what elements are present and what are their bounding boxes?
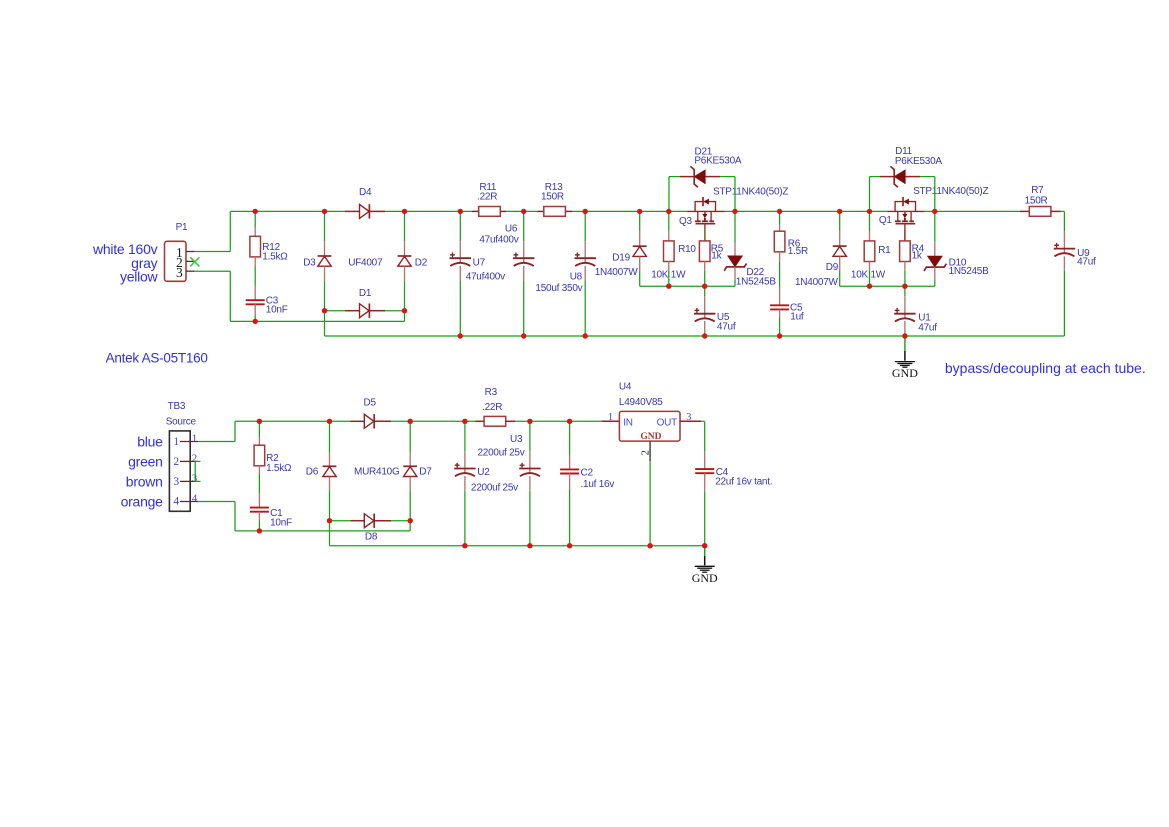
svg-text:10nF: 10nF: [270, 517, 292, 528]
wire: [329, 490, 331, 520]
wire: [459, 211, 461, 241]
wire: [324, 211, 326, 241]
svg-text:D2: D2: [415, 257, 428, 268]
wire: [329, 521, 331, 546]
wire: [391, 420, 475, 422]
svg-text:TB3: TB3: [168, 401, 186, 412]
wire: [235, 530, 410, 532]
svg-text:Q1: Q1: [879, 215, 893, 226]
svg-text:GND: GND: [892, 366, 918, 380]
svg-text:D5: D5: [364, 397, 377, 408]
wire: [235, 420, 350, 422]
svg-text:GND: GND: [692, 571, 718, 585]
P1 pin 2: [186, 260, 195, 262]
wire: [258, 421, 260, 437]
capacitor C2: [560, 468, 579, 470]
svg-text:blue: blue: [137, 434, 163, 450]
TVS diode D21: [695, 170, 706, 183]
svg-text:47uf: 47uf: [1077, 256, 1096, 267]
junction: [867, 284, 872, 289]
capacitor U5: [704, 314, 706, 319]
svg-text:U6: U6: [505, 224, 518, 235]
svg-text:orange: orange: [121, 494, 164, 510]
svg-text:D3: D3: [303, 257, 316, 268]
wire: [385, 210, 472, 212]
svg-text:2: 2: [173, 456, 179, 468]
resistor R4: [900, 241, 911, 262]
svg-text:P1: P1: [176, 222, 188, 233]
capacitor C4 column: [704, 452, 706, 469]
wire: [325, 310, 346, 312]
junction: [666, 284, 671, 289]
transistor Q1: [887, 210, 925, 212]
wire: [934, 280, 936, 286]
diode D19: [633, 245, 647, 247]
wire: [869, 177, 871, 212]
wire: [639, 211, 641, 231]
svg-text:UF4007: UF4007: [348, 257, 383, 268]
junction: [257, 528, 262, 533]
svg-text:2200uf 25v: 2200uf 25v: [471, 483, 518, 494]
wire: [324, 281, 326, 336]
wire: [198, 441, 235, 443]
wire: [572, 210, 687, 212]
svg-text:2: 2: [192, 452, 198, 464]
svg-text:C2: C2: [581, 468, 594, 479]
wire: [904, 286, 906, 296]
diode D4: [360, 204, 370, 218]
wire: [640, 285, 735, 287]
junction: [402, 308, 407, 313]
svg-text:green: green: [128, 454, 163, 470]
wire: [195, 251, 231, 253]
junction: [702, 333, 707, 338]
junction: [462, 543, 467, 548]
svg-text:3: 3: [686, 412, 691, 423]
wire: [701, 420, 705, 422]
resistor R5: [699, 241, 710, 262]
wire: [1063, 270, 1065, 336]
regulator U4: [619, 411, 680, 441]
svg-text:R7: R7: [1031, 185, 1044, 196]
wire: [734, 280, 736, 286]
diode D1: [360, 304, 370, 318]
svg-text:1k: 1k: [912, 251, 923, 262]
connector P1: [165, 241, 187, 281]
junction: [527, 543, 532, 548]
diode D2: [398, 255, 412, 257]
svg-text:D7: D7: [419, 466, 432, 477]
resistor R6: [774, 231, 785, 252]
wire: [258, 474, 260, 494]
wire: [584, 281, 586, 336]
svg-text:1.5kΩ: 1.5kΩ: [266, 463, 292, 474]
TVS diode D11: [895, 170, 906, 183]
junction: [527, 419, 532, 424]
resistor R7: [1020, 210, 1030, 212]
wire: [779, 318, 781, 337]
junction: [322, 209, 327, 214]
junction: [567, 543, 572, 548]
wire: [523, 211, 525, 241]
svg-text:47uf: 47uf: [918, 322, 937, 333]
wire: [839, 211, 841, 231]
junction: [837, 209, 842, 214]
svg-text:1N4007W: 1N4007W: [795, 277, 839, 288]
capacitor U3: [529, 469, 531, 474]
svg-text:P6KE530A: P6KE530A: [694, 156, 742, 167]
wire: [704, 271, 706, 287]
wire: [330, 520, 351, 522]
svg-text:1.5R: 1.5R: [788, 246, 808, 257]
diode D8: [364, 514, 374, 528]
svg-text:1N5245B: 1N5245B: [736, 277, 777, 288]
svg-text:47uf400v: 47uf400v: [479, 234, 518, 245]
resistor R3: [475, 420, 484, 422]
diode D8: [350, 520, 364, 522]
svg-text:Antek AS-05T160: Antek AS-05T160: [106, 350, 208, 365]
diode D4 leads: [345, 210, 359, 212]
wire: [409, 521, 411, 531]
junction: [702, 543, 707, 548]
wire: [234, 421, 236, 441]
junction: [322, 308, 327, 313]
svg-text:1uf: 1uf: [790, 311, 804, 322]
junction: [732, 209, 737, 214]
svg-text:GND: GND: [640, 432, 661, 442]
svg-text:Q3: Q3: [679, 216, 693, 227]
svg-text:4: 4: [173, 496, 179, 508]
svg-text:47uf400v: 47uf400v: [466, 272, 505, 283]
svg-text:U3: U3: [510, 434, 523, 445]
junction: [458, 209, 463, 214]
resistor R11: [472, 210, 484, 212]
zener diode D22: [728, 256, 742, 267]
diode D5: [364, 414, 374, 428]
wire: [869, 271, 871, 287]
TB3 pin 2: [180, 460, 195, 462]
svg-text:.1uf 16v: .1uf 16v: [581, 479, 615, 490]
junction: [647, 543, 652, 548]
svg-text:3: 3: [173, 476, 179, 488]
junction: [408, 518, 413, 523]
wire: [404, 281, 406, 311]
wire: [904, 271, 906, 287]
no-connect X on P1 pin 2: [190, 257, 199, 266]
wire: [934, 211, 936, 241]
svg-text:D9: D9: [826, 262, 839, 273]
svg-text:1k: 1k: [711, 251, 722, 262]
svg-text:OUT: OUT: [657, 417, 678, 428]
resistor R11 box: [479, 207, 501, 217]
junction: [253, 319, 258, 324]
svg-text:10K 1W: 10K 1W: [851, 270, 886, 281]
resistor R13: [537, 210, 544, 212]
wire: [725, 210, 888, 212]
wire: [840, 285, 935, 287]
resistor R1: [864, 241, 875, 262]
wire: [229, 211, 231, 251]
svg-text:1: 1: [173, 436, 179, 448]
diode D9: [833, 245, 847, 247]
junction: [327, 518, 332, 523]
wire: [584, 211, 586, 241]
wire: [464, 421, 466, 451]
svg-text:1: 1: [192, 432, 198, 444]
svg-text:bypass/decoupling at each tube: bypass/decoupling at each tube.: [945, 360, 1146, 376]
wire: [869, 211, 871, 231]
diode D3: [318, 255, 332, 257]
junction: [666, 209, 671, 214]
junction: [583, 333, 588, 338]
wire: [734, 211, 736, 243]
svg-text:3: 3: [176, 265, 183, 280]
wire: [254, 316, 256, 322]
capacitor U1: [904, 314, 906, 319]
wire: [329, 421, 331, 453]
TB3 pin 3: [180, 480, 195, 482]
wire: [258, 521, 260, 531]
svg-text:1N5245B: 1N5245B: [949, 266, 990, 277]
wire: [734, 177, 736, 212]
connector TB3: [169, 431, 190, 511]
svg-text:10K 1W: 10K 1W: [651, 270, 686, 281]
wire: [704, 492, 706, 546]
wire: [195, 480, 201, 482]
svg-text:22uf 16v tant.: 22uf 16v tant.: [715, 477, 772, 488]
wire: [230, 210, 345, 212]
wire: [668, 211, 670, 231]
wire: [391, 520, 410, 522]
capacitor U2: [464, 469, 466, 474]
wire: [409, 490, 411, 520]
wire: [839, 271, 841, 286]
capacitor C3: [246, 299, 265, 301]
P1 pin 1: [186, 251, 195, 253]
wire: [194, 461, 196, 481]
wire: [569, 490, 571, 546]
capacitor U7: [459, 258, 461, 263]
svg-text:150R: 150R: [1025, 195, 1048, 206]
wire: [669, 176, 680, 178]
wire: [409, 421, 411, 453]
wire: [904, 333, 906, 336]
junction: [402, 209, 407, 214]
junction: [777, 209, 782, 214]
P1 pin 3: [186, 270, 195, 272]
svg-text:D8: D8: [365, 532, 378, 543]
svg-text:brown: brown: [126, 474, 163, 490]
capacitor U9: [1063, 249, 1065, 254]
svg-text:U4: U4: [619, 382, 632, 393]
wire: [195, 270, 231, 272]
wire: [325, 335, 1065, 337]
wire: [230, 320, 404, 322]
junction: [253, 209, 258, 214]
diode D6: [323, 465, 337, 467]
junction: [521, 209, 526, 214]
wire: [254, 211, 256, 227]
ground symbol GND (top): [904, 336, 906, 351]
svg-text:1.5kΩ: 1.5kΩ: [262, 252, 288, 263]
TB3 pin 4: [180, 501, 198, 503]
junction: [867, 209, 872, 214]
wire: [779, 211, 781, 224]
wire: [506, 210, 537, 212]
wire: [1061, 210, 1065, 212]
capacitor U6: [523, 258, 525, 263]
capacitor C1: [250, 507, 269, 509]
svg-text:R3: R3: [485, 387, 498, 398]
wire: [385, 310, 405, 312]
wire: [330, 545, 705, 547]
junction: [932, 209, 937, 214]
diode D7: [403, 465, 417, 467]
wire: [569, 421, 571, 455]
wire: [229, 271, 231, 321]
wire: [195, 460, 201, 462]
svg-text:4: 4: [192, 492, 198, 504]
svg-text:R1: R1: [878, 245, 891, 256]
wire: [234, 502, 236, 531]
svg-text:10nF: 10nF: [266, 305, 288, 316]
svg-text:D19: D19: [612, 252, 630, 263]
svg-text:U2: U2: [477, 467, 490, 478]
wire: [404, 311, 406, 322]
wire: [254, 266, 256, 286]
junction: [462, 419, 467, 424]
resistor R2: [254, 445, 265, 466]
svg-text:Source: Source: [166, 417, 197, 428]
capacitor U8: [584, 258, 586, 263]
wire: [704, 333, 706, 336]
junction: [408, 419, 413, 424]
wire: [920, 176, 935, 178]
wire: [515, 420, 601, 422]
svg-text:D1: D1: [359, 288, 372, 299]
svg-text:2: 2: [640, 450, 651, 455]
svg-text:R10: R10: [678, 244, 696, 255]
junction: [702, 284, 707, 289]
svg-text:47uf: 47uf: [717, 321, 736, 332]
junction: [521, 333, 526, 338]
U4 pin 1: [601, 420, 619, 422]
svg-text:yellow: yellow: [120, 269, 159, 285]
svg-text:IN: IN: [623, 417, 633, 428]
transistor Q3: [687, 210, 725, 212]
junction: [458, 333, 463, 338]
svg-text:STP11NK40(50)Z: STP11NK40(50)Z: [913, 186, 988, 197]
wire: [649, 461, 651, 546]
svg-text:D4: D4: [359, 187, 372, 198]
wire: [404, 211, 406, 241]
wire: [464, 491, 466, 546]
junction: [257, 419, 262, 424]
capacitor C4: [695, 468, 714, 470]
wire: [720, 176, 735, 178]
svg-text:2200uf 25v: 2200uf 25v: [478, 447, 525, 458]
junction: [902, 284, 907, 289]
wire: [1063, 211, 1065, 231]
wire: [529, 421, 531, 451]
U4 pin 2 (GND): [649, 441, 651, 461]
svg-text:U8: U8: [570, 271, 583, 282]
svg-text:D6: D6: [306, 466, 319, 477]
junction: [777, 333, 782, 338]
wire: [934, 177, 936, 212]
wire: [668, 177, 670, 212]
svg-text:1: 1: [608, 412, 613, 423]
zener diode D10: [928, 256, 942, 267]
wire: [529, 491, 531, 546]
svg-text:L4940V85: L4940V85: [619, 397, 663, 408]
diode D5: [350, 420, 364, 422]
resistor R3 box: [484, 416, 506, 426]
svg-text:150uf 350v: 150uf 350v: [535, 283, 582, 294]
resistor R7 box: [1029, 207, 1051, 217]
svg-text:STP11NK40(50)Z: STP11NK40(50)Z: [713, 187, 788, 198]
U4 pin 3: [680, 420, 701, 422]
wire: [925, 210, 1020, 212]
wire: [523, 281, 525, 336]
ground symbol GND (bottom): [704, 546, 706, 556]
resistor R12: [250, 236, 261, 257]
junction: [327, 419, 332, 424]
wire: [704, 421, 706, 451]
TB3 pin 1: [180, 441, 198, 443]
wire: [198, 501, 235, 503]
svg-text:.22R: .22R: [482, 402, 502, 413]
resistor R10: [664, 241, 675, 262]
capacitor C5: [770, 304, 789, 306]
svg-text:U7: U7: [473, 257, 486, 268]
resistor R13 box: [544, 207, 566, 217]
junction: [902, 333, 907, 338]
wire: [639, 271, 641, 286]
svg-text:1N4007W: 1N4007W: [595, 267, 639, 278]
wire: [779, 262, 781, 287]
junction: [567, 419, 572, 424]
wire: [704, 286, 706, 296]
junction: [637, 209, 642, 214]
svg-text:MUR410G: MUR410G: [354, 466, 400, 477]
svg-text:.22R: .22R: [477, 192, 497, 203]
junction: [583, 209, 588, 214]
svg-text:P6KE530A: P6KE530A: [895, 156, 943, 167]
wire: [870, 176, 880, 178]
svg-text:150R: 150R: [541, 192, 564, 203]
wire: [668, 271, 670, 287]
wire: [459, 281, 461, 336]
